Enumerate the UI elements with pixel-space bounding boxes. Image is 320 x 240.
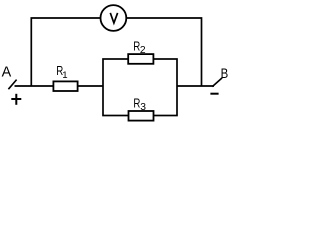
svg-text:A: A: [2, 64, 12, 81]
svg-text:2: 2: [140, 45, 146, 56]
svg-text:B: B: [221, 66, 229, 82]
svg-text:1: 1: [62, 70, 67, 81]
svg-text:3: 3: [140, 102, 146, 113]
